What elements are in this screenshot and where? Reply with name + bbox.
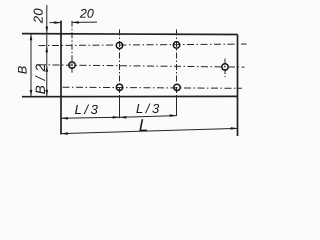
arrow 20 horizontal pointing right xyxy=(54,21,61,24)
hole column3 top row xyxy=(173,42,179,48)
arrow B top pointing up xyxy=(30,34,33,41)
horizontal 20 dimension line right part xyxy=(72,21,97,23)
hole column2 top row xyxy=(116,42,122,48)
arrow B bottom pointing down xyxy=(30,90,33,97)
L/3 second dimension line xyxy=(120,116,177,118)
hole column2 bottom row xyxy=(116,84,122,90)
column 4 hole crosshair vertical xyxy=(224,59,226,78)
label 20 horizontal xyxy=(80,9,94,18)
L dimension line xyxy=(61,128,238,133)
hole column4 middle row xyxy=(222,64,228,70)
middle row centerline xyxy=(39,65,245,67)
arrow L/3 second right xyxy=(170,114,177,117)
L/3 first dimension line xyxy=(61,117,120,118)
arrow L/3 first left xyxy=(61,117,68,120)
arrow 20 top pointing down xyxy=(46,27,49,34)
label L/3 first xyxy=(75,105,98,115)
arrow B/2 top pointing up xyxy=(46,65,49,72)
label L/3 second xyxy=(136,104,159,114)
hole column1 middle row xyxy=(69,62,75,68)
label L xyxy=(139,119,147,131)
arrow L/3 first right xyxy=(113,116,120,119)
plate bottom edge with left extension xyxy=(22,95,238,97)
arrow 20 bottom pointing up xyxy=(46,46,49,53)
label B rotated xyxy=(18,66,27,74)
column 3 vertical centerline / extension to L/3 dimension xyxy=(176,30,178,98)
label 20 vertical rotated xyxy=(34,9,43,24)
horizontal 20 dimension line left part xyxy=(50,22,62,24)
column 2 vertical centerline / extension to L/3 dimension xyxy=(119,30,121,98)
column 1 vertical centerline / extension xyxy=(71,21,73,74)
arrow B/2 bottom pointing down xyxy=(46,90,49,97)
hole column3 bottom row xyxy=(174,84,180,90)
arrow L right xyxy=(231,127,238,130)
vertical dimension line for 20 and B/2 xyxy=(46,5,48,97)
arrow L left xyxy=(61,132,68,135)
top row centerline xyxy=(39,44,247,46)
arrow L/3 second left xyxy=(120,116,127,119)
label B/2 rotated xyxy=(35,64,45,94)
plate right edge with extension below xyxy=(237,35,239,137)
plate left edge with extensions above and below xyxy=(60,21,62,135)
bottom row centerline xyxy=(63,87,243,88)
arrow 20 horizontal pointing left xyxy=(72,21,79,24)
plate top edge with left extension xyxy=(22,33,238,36)
B dimension line xyxy=(30,34,32,97)
